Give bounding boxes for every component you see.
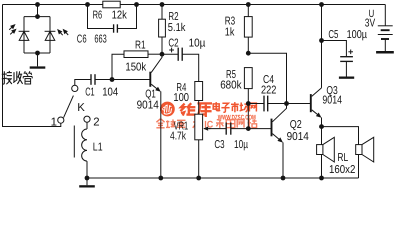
svg-text:R6: R6: [93, 9, 103, 21]
wire Q1 emitter to rail: [160, 91, 162, 178]
terminal 2: [84, 116, 90, 122]
label 1k value: [225, 27, 235, 39]
label C4: [263, 74, 274, 86]
label 222 value: [261, 84, 276, 96]
label 接收管: [2, 71, 32, 84]
node base junction: [110, 77, 115, 82]
svg-text:150k: 150k: [125, 61, 146, 73]
wire speaker2 to rail: [358, 155, 360, 179]
svg-text:3V: 3V: [365, 17, 376, 29]
transistor Q1 emitter: [151, 84, 161, 92]
wire C2 to R4: [182, 54, 199, 81]
svg-text:104: 104: [102, 87, 118, 99]
wire R3 top: [246, 2, 251, 17]
label K: [77, 102, 85, 114]
label C3: [214, 139, 224, 151]
svg-text:160x2: 160x2: [329, 164, 355, 176]
label C2 plus: [169, 48, 174, 53]
svg-text:5.1k: 5.1k: [168, 22, 186, 34]
label R3: [225, 16, 235, 28]
node L1 bottom: [85, 176, 90, 181]
resistor R1: [124, 51, 148, 58]
wire R1 left: [112, 54, 124, 79]
label 160x2 value: [329, 164, 355, 176]
resistor R4: [195, 82, 203, 101]
svg-text:C3: C3: [214, 139, 224, 151]
label 2: [93, 116, 99, 128]
label C6: [77, 33, 87, 45]
terminal 1: [58, 117, 64, 123]
transistor Q2 emitter: [272, 134, 283, 143]
node Q3 emitter: [319, 124, 324, 129]
wire Q2 collector to Q3 base: [287, 103, 311, 105]
wire C5 bottom: [345, 61, 347, 76]
node R6 right: [134, 2, 139, 7]
wire R2 top: [160, 2, 165, 19]
svg-text:10µ: 10µ: [189, 37, 206, 49]
capacitor C1: [91, 74, 95, 85]
node speaker1 rail: [319, 176, 324, 181]
wire bottom rail: [87, 177, 359, 179]
label Q2: [290, 119, 302, 131]
wire C1 to Q1 base: [95, 79, 150, 81]
svg-text:9014: 9014: [137, 100, 159, 112]
svg-text:1k: 1k: [225, 27, 235, 39]
ground bottom rail: [79, 178, 95, 188]
label R1: [135, 40, 146, 52]
transistor Q3 collector: [312, 88, 322, 97]
wire C4 to collector node: [268, 103, 287, 105]
svg-text:2: 2: [93, 116, 99, 128]
svg-text:10µ: 10µ: [234, 139, 248, 151]
svg-text:222: 222: [261, 84, 276, 96]
svg-text:L1: L1: [93, 142, 103, 154]
label R2: [168, 11, 178, 23]
label 3V: [365, 17, 376, 29]
speaker RL left: [317, 137, 335, 162]
label R5: [226, 69, 236, 81]
label C2: [168, 37, 178, 49]
label C5 plus: [348, 50, 353, 55]
node receiver top: [35, 14, 40, 19]
label 12k value: [112, 9, 127, 21]
wire C3 to Q2 base: [231, 128, 272, 130]
label 150k value: [125, 61, 146, 73]
svg-text:1: 1: [51, 116, 57, 128]
wire R3 bottom: [247, 37, 249, 53]
wire R4 to VR1: [198, 101, 200, 115]
wire Q3 collector from rail: [319, 2, 324, 88]
wire speaker1 to rail: [321, 155, 323, 179]
label 5.1k value: [168, 22, 186, 34]
wire Q3 emitter to speaker2: [322, 127, 359, 145]
wire top supply rail right segment: [121, 4, 386, 6]
svg-text:R1: R1: [135, 40, 146, 52]
transistor Q3 emitter: [312, 110, 322, 118]
svg-text:663: 663: [94, 33, 106, 45]
label R6: [93, 9, 103, 21]
label Q1: [145, 89, 156, 101]
receiver box: [24, 17, 50, 53]
ground receiver: [30, 53, 46, 69]
node Q2 base junction: [246, 126, 251, 131]
node X collector: [246, 51, 251, 56]
label 100 value: [173, 92, 189, 104]
wire left border: [3, 5, 61, 127]
label 663 value: [94, 33, 106, 45]
wire Q3 emitter to node: [321, 118, 323, 127]
node R6 left: [85, 2, 90, 7]
label C5: [328, 29, 338, 41]
photodiode D2: [45, 17, 56, 53]
inductor L1: [82, 122, 87, 178]
wire R1 right: [148, 53, 162, 55]
svg-text:C2: C2: [168, 37, 178, 49]
svg-text:9014: 9014: [322, 94, 342, 106]
ground C5: [339, 77, 354, 79]
label C2 10u: [189, 37, 206, 49]
wire R5 bottom: [247, 89, 249, 104]
resistor R5: [244, 68, 252, 89]
capacitor C4: [264, 96, 268, 112]
wire nodeX to C4 right: [248, 53, 286, 103]
transistor Q1 base bar: [149, 72, 151, 87]
node C5 tap: [319, 38, 324, 43]
capacitor C6: [114, 24, 118, 32]
label L1: [93, 142, 103, 154]
label C1: [85, 87, 94, 99]
svg-text:12k: 12k: [112, 9, 127, 21]
wire C4 left to base: [247, 104, 249, 129]
node Q1 emitter rail: [158, 176, 163, 181]
speaker RL right: [356, 137, 374, 162]
capacitor C2: [178, 48, 182, 61]
resistor R2: [159, 19, 166, 37]
wire Q2 emitter to rail: [282, 142, 284, 178]
wire R2node to C2: [162, 53, 178, 55]
wire Q3 emitter to speaker1: [321, 127, 323, 145]
wire R5node to C4: [248, 103, 264, 105]
label U: [369, 8, 375, 20]
label RL: [337, 152, 348, 164]
label Q3: [326, 85, 337, 97]
wire top supply rail left segment: [3, 4, 104, 6]
node receiver bottom: [35, 51, 40, 56]
wire battery top: [384, 5, 386, 26]
svg-text:4.7k: 4.7k: [170, 131, 186, 143]
svg-text:100: 100: [173, 92, 189, 104]
svg-text:Q2: Q2: [290, 119, 302, 131]
transistor Q2 collector: [272, 104, 286, 122]
switch blade K: [64, 96, 74, 118]
label R4: [176, 82, 186, 94]
svg-text:9014: 9014: [287, 131, 309, 143]
node Q2 emitter rail: [281, 176, 286, 181]
light arrows into D2: [57, 29, 68, 36]
label 1: [51, 116, 57, 128]
wire wiper to C3: [209, 128, 226, 130]
transistor Q1 collector: [151, 54, 162, 72]
svg-text:680k: 680k: [220, 79, 242, 91]
capacitor C3: [226, 123, 231, 135]
wire VR1 to rail: [198, 140, 200, 178]
terminal input: [72, 85, 78, 91]
label Q1 9014: [137, 100, 159, 112]
label 680k value: [220, 79, 242, 91]
label 104 value: [102, 87, 118, 99]
svg-text:100µ: 100µ: [347, 29, 368, 41]
svg-text:C6: C6: [77, 33, 87, 45]
wiper arrow VR1: [203, 127, 210, 131]
ground battery: [376, 51, 394, 54]
resistor R6: [103, 1, 120, 8]
transistor Q3 base bar: [310, 94, 312, 112]
label C3 10u: [234, 139, 248, 151]
svg-text:C1: C1: [85, 87, 94, 99]
battery cell plates: [378, 26, 393, 39]
wire battery bottom: [384, 39, 386, 51]
svg-text:K: K: [77, 102, 85, 114]
watermark dzsc logo and text: [156, 102, 256, 131]
node Q2 collector: [284, 101, 289, 106]
capacitor C5: [340, 57, 353, 62]
node VR1 rail: [196, 176, 201, 181]
core line L1: [73, 126, 75, 158]
photodiode D1: [19, 17, 30, 53]
label 4.7k value: [170, 131, 186, 143]
label C5 100u: [347, 29, 368, 41]
transistor Q2 base bar: [271, 119, 273, 137]
label Q2 9014: [287, 131, 309, 143]
label Q3 9014: [322, 94, 342, 106]
wire input to C1: [75, 80, 91, 86]
potentiometer VR1: [195, 114, 203, 140]
node top rail to receiver: [35, 2, 40, 17]
light arrows into D1: [9, 24, 16, 34]
node C4 left: [246, 101, 251, 106]
wire C5 tap: [322, 41, 347, 57]
wire R2 bottom: [161, 37, 163, 54]
node R2 bottom: [160, 52, 165, 57]
svg-text:RL: RL: [337, 152, 348, 164]
wire C6 loop: [88, 5, 137, 29]
resistor R3: [244, 17, 252, 37]
label VR1: [174, 120, 189, 132]
svg-text:C5: C5: [328, 29, 338, 41]
